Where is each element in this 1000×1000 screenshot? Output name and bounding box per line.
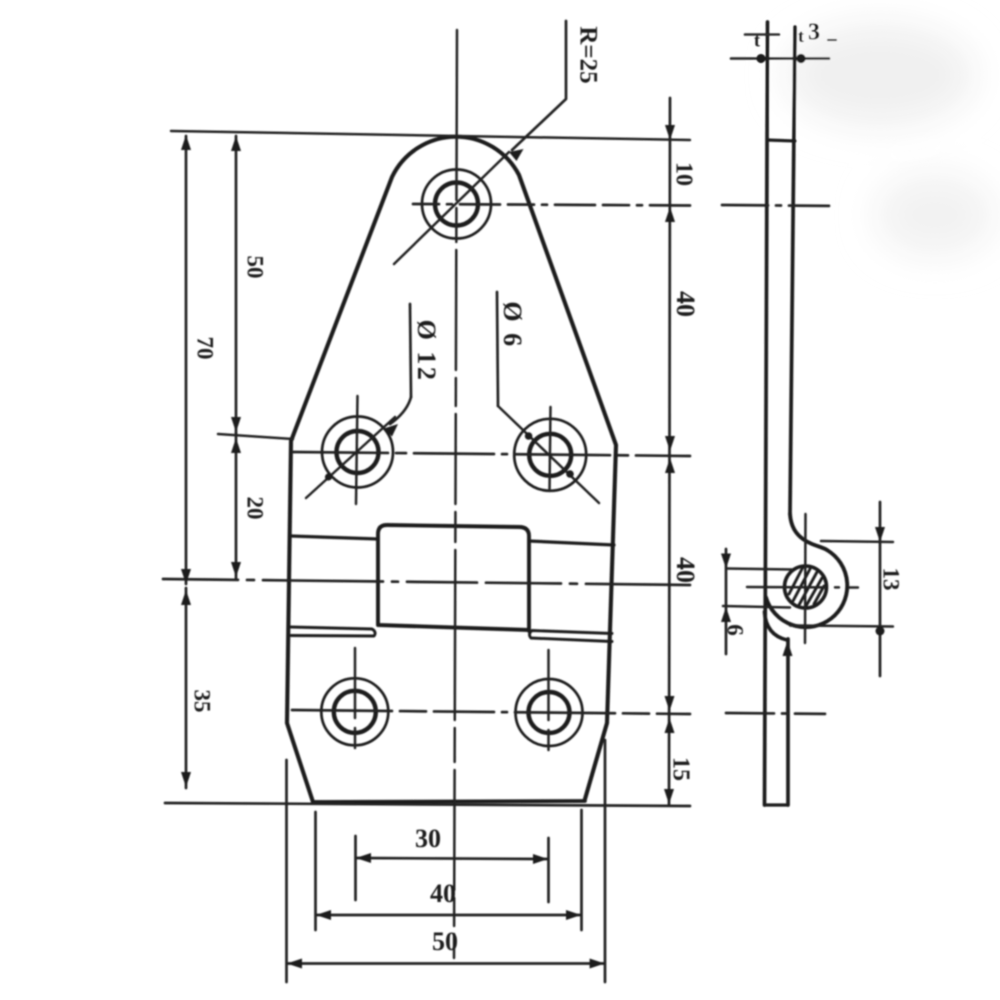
hole top: outer bbox=[422, 170, 491, 239]
svg-text:50: 50 bbox=[432, 927, 458, 956]
svg-text:Ø 12: Ø 12 bbox=[412, 320, 441, 383]
side left face bbox=[765, 22, 768, 805]
hole bottom-left: outer bbox=[321, 678, 388, 745]
under-barrel arrow bbox=[783, 641, 793, 656]
dimension 20 line bbox=[235, 433, 238, 578]
hole mid-right: outer bbox=[514, 419, 586, 491]
svg-text:40: 40 bbox=[671, 291, 700, 317]
bottom long line bbox=[165, 803, 690, 806]
hole bottom-right: inner bbox=[529, 692, 570, 733]
Ø12 diagonal bbox=[306, 417, 395, 498]
hole top: inner bbox=[435, 183, 478, 226]
svg-text:70: 70 bbox=[193, 337, 218, 360]
side bottom centerline bbox=[726, 713, 840, 714]
dim 50 extension left bbox=[285, 760, 288, 982]
Ø12 leader bbox=[390, 397, 411, 424]
svg-text:10: 10 bbox=[670, 162, 696, 186]
fold line right bbox=[529, 541, 614, 545]
svg-text:3: 3 bbox=[808, 20, 820, 46]
dim 50 extension right bbox=[604, 740, 607, 982]
hole bottom-right: outer bbox=[516, 679, 583, 746]
svg-text:6: 6 bbox=[723, 624, 748, 636]
dimension 30 line bbox=[356, 858, 548, 859]
pin horizontal centerline bbox=[747, 586, 858, 589]
dimension 40 line bbox=[316, 914, 581, 917]
dim 30 extension right bbox=[547, 838, 550, 902]
dimension 50 line bbox=[287, 962, 605, 965]
pin (hatched circle) bbox=[785, 566, 827, 608]
plate bottom edge bbox=[313, 801, 585, 802]
hole bottom-left: inner bbox=[334, 691, 376, 733]
knuckle cutout bbox=[378, 525, 529, 631]
centerline mid-right hole vertical bbox=[550, 407, 551, 491]
barrel outer arc bbox=[766, 550, 847, 627]
svg-text:40: 40 bbox=[430, 879, 456, 908]
svg-text:50: 50 bbox=[243, 256, 268, 279]
centerline middle row horizontal bbox=[293, 452, 690, 456]
dim 30 extension left bbox=[354, 836, 357, 900]
centerline mid-left hole vertical bbox=[356, 396, 358, 504]
arrows right column bbox=[665, 125, 675, 140]
centerline bottom-right hole vertical bbox=[547, 650, 550, 786]
hole mid-right (Ø6): inner bbox=[529, 434, 571, 476]
dim 6 extension top bbox=[727, 569, 792, 570]
Ø6 underline bbox=[497, 292, 498, 406]
svg-text:R=25: R=25 bbox=[574, 26, 601, 83]
paper smudge top right bbox=[785, 23, 975, 127]
pin vertical centerline bbox=[804, 514, 807, 643]
centerline hinge pin (front) bbox=[163, 579, 690, 585]
paper smudge right bbox=[875, 173, 995, 257]
dim 13 extension bottom bbox=[790, 626, 893, 627]
dim 40 extension left bbox=[314, 812, 317, 930]
knuckle S-curve and barrel bbox=[790, 514, 827, 550]
svg-text:30: 30 bbox=[415, 824, 441, 853]
svg-text:Ø 6: Ø 6 bbox=[498, 301, 527, 348]
dim 13 line bbox=[879, 502, 882, 676]
fold line left bbox=[291, 536, 378, 539]
side top edge bbox=[768, 140, 796, 141]
dim 13 extension top bbox=[821, 541, 893, 542]
svg-text:15: 15 bbox=[667, 757, 693, 781]
dim 40 extension right bbox=[580, 810, 583, 930]
centerline top hole horizontal bbox=[413, 204, 690, 206]
side bottom edge bbox=[765, 803, 789, 806]
side right face upper bbox=[790, 27, 795, 514]
svg-text:t: t bbox=[798, 26, 804, 46]
slot right bbox=[529, 631, 612, 642]
dimension 50 line bbox=[235, 136, 238, 433]
svg-text:20: 20 bbox=[243, 497, 268, 520]
main vertical centerline bbox=[454, 30, 457, 958]
slot left bbox=[291, 627, 375, 636]
svg-text:35: 35 bbox=[190, 690, 215, 713]
dim 3 line bbox=[731, 57, 829, 60]
centerline bottom-left hole vertical bbox=[354, 648, 357, 784]
svg-text:t: t bbox=[754, 30, 761, 51]
right dimension line column bbox=[669, 98, 670, 804]
centerline bottom row horizontal bbox=[292, 710, 690, 714]
dim 6 line bbox=[725, 549, 728, 654]
side top centerline bbox=[722, 205, 843, 206]
dimension 35 line bbox=[185, 588, 188, 788]
svg-text:40: 40 bbox=[671, 557, 700, 583]
R=25 leader continuation through hole bbox=[394, 152, 509, 264]
Ø12 underline bbox=[410, 304, 411, 397]
svg-text:13: 13 bbox=[879, 568, 904, 591]
label t crossbar bbox=[745, 33, 779, 36]
R=25 leader bbox=[512, 21, 566, 150]
dim 6 extension bottom bbox=[723, 606, 790, 608]
mid extension line (20) bbox=[218, 434, 293, 439]
side right face lower bbox=[786, 639, 790, 805]
hole mid-left (Ø12): inner bbox=[337, 431, 379, 473]
top extension line bbox=[171, 131, 690, 140]
Ø6 dots bbox=[525, 432, 533, 440]
hole mid-left: outer bbox=[322, 417, 393, 488]
hinge plate outline (front view) bbox=[287, 137, 616, 802]
under-barrel arc bbox=[765, 612, 788, 640]
dimension 70 line bbox=[185, 136, 188, 584]
Ø12 diagonal dot bbox=[325, 473, 332, 480]
Ø6 leader diagonal bbox=[498, 406, 599, 503]
